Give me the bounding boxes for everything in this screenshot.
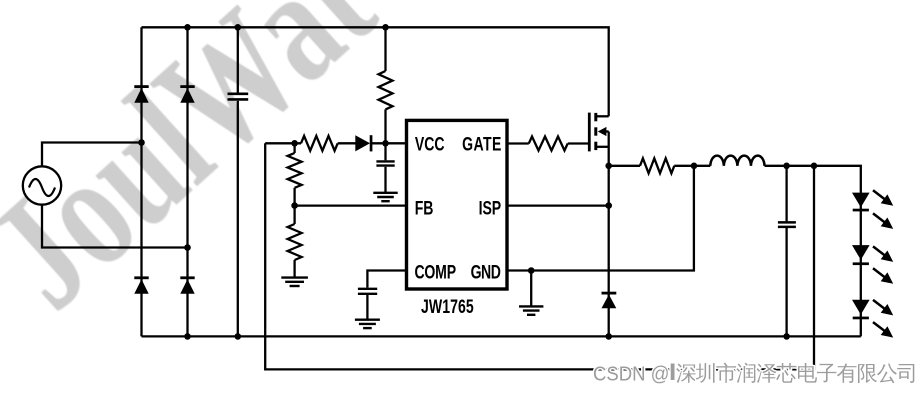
wire GATE to R5 [507,142,529,144]
node R6 / L1 / GND return [691,163,698,170]
char 圳 [696,363,715,383]
svg-text:FB: FB [415,197,434,219]
ground G3 [519,271,543,315]
node bottom rail / right bridge leg [184,333,191,340]
wire FB [295,204,407,206]
wire bottom rail [142,335,861,337]
resistor R2 [301,136,338,151]
wire R2 to D5 [338,142,356,144]
node Vout sense / R3 top [291,140,298,147]
LED D8 [852,245,870,265]
diode D3 [134,276,148,293]
node MOSFET source / sense [605,163,612,170]
wire AC hot to bridge [42,143,142,167]
wire ISP [507,204,609,206]
resistor R3 [288,143,302,205]
LED arrows [873,190,893,337]
wire left bridge leg [140,27,142,336]
LED D7 [852,193,870,212]
diode D1 [134,85,148,103]
inductor L1 [710,156,764,166]
char 电 [798,363,817,383]
wire source to R6 [609,165,640,167]
svg-text:CSDN @: CSDN @ [593,363,670,385]
resistor R5 [529,137,568,151]
char 司 [897,364,914,383]
svg-text:ISP: ISP [479,197,502,219]
wire R5 to gate [568,142,590,144]
capacitor C2 [376,143,394,192]
wire D5 to VCC pin [372,142,407,144]
capacitor C3 [358,289,377,319]
node VCC / R1 / C2 [382,140,389,147]
diode D5 [355,135,372,151]
char 子 [817,364,837,383]
node top rail / C1 [235,24,242,31]
transistor Q1 [589,113,608,152]
svg-text:JW1765: JW1765 [421,296,474,318]
node AC neutral / bridge midpoint [184,244,191,251]
ac source V1 [23,166,61,204]
wire AC neutral to bridge [42,204,188,247]
char 泽 [757,364,777,383]
wire R6 to L1 node [674,165,710,167]
capacitor C4 [778,166,796,337]
ground G4 [355,320,380,328]
capacitor C1 [228,27,249,336]
node top rail / right bridge leg [184,24,191,31]
svg-text:JoulWat: JoulWat [0,0,406,342]
ground G2 [281,278,308,286]
node FB divider tap [291,202,298,209]
node L1 out / Vout sense [811,163,818,170]
char 深 [676,364,696,383]
char 市 [716,363,736,383]
node GND pin / G3 [528,267,535,274]
CSDN watermark text [593,363,914,386]
char 有 [837,363,857,383]
node top rail / R1 [382,24,389,31]
resistor R6 [640,158,674,173]
node AC hot / bridge midpoint [138,139,145,146]
diode D6 [602,292,617,309]
svg-text:GND: GND [471,262,501,284]
diode D2 [180,85,194,103]
ground G1 [373,193,397,201]
node ISP / source leg [605,202,612,209]
char 润 [736,363,755,383]
diode D4 [180,276,194,293]
wire top rail [142,27,609,116]
svg-text:VCC: VCC [415,133,445,155]
wire L1 to LED string [765,166,861,337]
node L1 out / C4 top [783,163,790,170]
node bottom rail / C4 [783,333,790,340]
wire GND to sense node [507,166,694,271]
wire right bridge leg [186,27,188,336]
svg-text:COMP: COMP [415,262,457,284]
node bottom rail / C1 [235,333,242,340]
resistor R1 [379,27,393,143]
wire Vout sense loop [265,143,814,369]
char 公 [877,363,897,383]
char 限 [858,364,877,383]
svg-text:GATE: GATE [462,133,501,155]
LED D9 [852,300,870,320]
char 芯 [776,363,796,383]
wire source down [608,132,610,337]
op-amp U1 IC JW1765 box [407,120,508,289]
node bottom rail / D6 [605,333,612,340]
resistor R4 [288,206,302,277]
wire COMP [367,271,406,288]
wire VCC feed segment 1 [265,142,301,144]
